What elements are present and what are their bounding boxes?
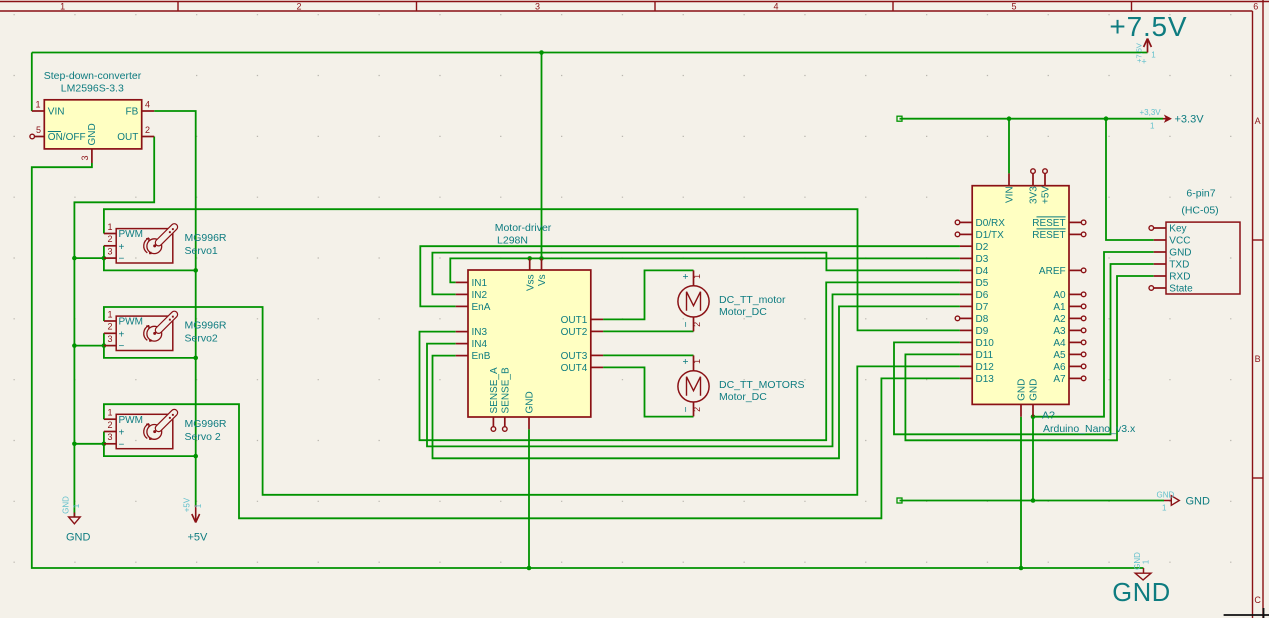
svg-text:1: 1: [692, 359, 702, 364]
U4 pin RXD: [1154, 272, 1191, 283]
svg-text:D5: D5: [976, 278, 989, 289]
svg-text:OUT4: OUT4: [561, 363, 588, 374]
svg-text:1: 1: [35, 100, 40, 110]
svg-text:Motor-driver: Motor-driver: [495, 222, 552, 234]
servo Servo1 MG996R body: [116, 229, 173, 263]
wire FB/+5V net vertical column: [154, 111, 196, 507]
junction Servo2 minus / left column: [72, 343, 77, 348]
wire +7.5V top rail: [32, 53, 1148, 112]
U3 pin D4: [960, 266, 989, 277]
svg-text:5: 5: [1011, 2, 1016, 12]
svg-text:A6: A6: [1053, 362, 1066, 373]
wire OUT net U1 pin2 down left column: [74, 137, 154, 518]
wire OUT4 to motor M2 minus: [603, 367, 693, 416]
svg-text:Step-down-converter: Step-down-converter: [44, 70, 142, 82]
unconnected end square GND wire: [897, 498, 902, 503]
svg-text:L298N: L298N: [497, 234, 528, 246]
U1 pin 1 VIN: [32, 100, 65, 118]
svg-text:A?: A?: [1042, 409, 1055, 421]
junction Vss / D3 line: [527, 256, 532, 261]
servo Servo 2 motor icon: [144, 413, 175, 440]
wire EnA to D2: [420, 246, 960, 306]
svg-text:GND: GND: [87, 123, 98, 145]
svg-text:Key: Key: [1169, 224, 1186, 235]
wire Servo1 PWM to D9: [104, 209, 960, 330]
svg-text:+7.5V: +7.5V: [1109, 11, 1187, 42]
wire Servo1 plus to +5V column: [104, 246, 196, 271]
servo Servo 2 pin 3 -: [104, 432, 125, 450]
U2 pin IN2: [456, 290, 488, 301]
junction Servo3 minus / left column: [72, 442, 77, 447]
svg-text:MG996R: MG996R: [185, 418, 227, 430]
motor driver U2 L298N body: [468, 270, 591, 417]
svg-text:1: 1: [72, 503, 81, 508]
U3 pin +5V: [1041, 169, 1052, 204]
wire Servo3 minus to left column: [74, 443, 104, 445]
U3 pin D11: [960, 350, 994, 361]
svg-text:6: 6: [1253, 2, 1258, 12]
U3 pin D2: [960, 242, 989, 253]
power symbol GND (right arrow): [1157, 490, 1211, 512]
junction Servo1 plus / +5V column: [193, 268, 198, 273]
motor DC_TT_MOTORS body: [678, 371, 709, 402]
wire Servo1 minus to left column: [74, 257, 104, 259]
svg-text:GND: GND: [1017, 379, 1028, 401]
svg-text:2: 2: [107, 420, 112, 430]
svg-text:Vss: Vss: [525, 274, 536, 291]
U3 pin D6: [960, 290, 989, 301]
servo Servo2 pin 2 +: [104, 322, 125, 341]
junction Servo2 minus / plus drop: [102, 343, 107, 348]
svg-text:RXD: RXD: [1169, 272, 1190, 283]
motor DC_TT_motor body: [678, 286, 709, 317]
U3 pin A2: [1053, 314, 1086, 325]
servo Servo 2 MG996R body: [116, 414, 173, 448]
U2 pin OUT4: [561, 363, 603, 374]
step-down converter U1 LM2596S-3.3 body: [44, 100, 141, 149]
svg-text:D10: D10: [976, 338, 995, 349]
power symbol +5V (bottom-left): [183, 497, 209, 543]
svg-text:+3,3V: +3,3V: [1140, 108, 1162, 117]
svg-text:D8: D8: [976, 314, 989, 325]
U3 pin RESET: [1032, 229, 1086, 241]
wire IN3 to D5: [420, 282, 960, 440]
svg-text:GND: GND: [1169, 248, 1191, 259]
svg-text:1: 1: [1142, 559, 1151, 564]
junction L298N GND / bottom rail: [527, 566, 532, 571]
wire Vs vertical from +7.5V rail: [541, 53, 543, 259]
U2 pin IN3: [456, 327, 488, 338]
U1 pin 5 ON/OFF: [30, 125, 86, 143]
U4 pin VCC: [1154, 236, 1191, 247]
svg-text:D2: D2: [976, 242, 989, 253]
U3 pin GND bottom2: [1029, 379, 1040, 417]
svg-text:EnB: EnB: [472, 351, 491, 362]
svg-text:GND: GND: [66, 532, 91, 544]
U2 pin SENSE_B: [500, 367, 511, 431]
motor DC_TT_motor pin 1 +: [681, 270, 702, 285]
svg-text:(HC-05): (HC-05): [1181, 205, 1218, 217]
servo Servo1 pin 3 -: [104, 246, 125, 264]
U2 pin SENSE_A: [489, 367, 500, 431]
svg-text:GND: GND: [1029, 379, 1040, 401]
servo Servo1 pin 1 PWM: [104, 222, 143, 240]
svg-text:TXD: TXD: [1169, 260, 1189, 271]
svg-text:A3: A3: [1053, 326, 1066, 337]
junction Servo2 plus / +5V column: [193, 356, 198, 361]
svg-text:RESET: RESET: [1032, 230, 1065, 241]
wire Arduino VIN to +3.3V rail: [1008, 119, 1010, 174]
wire Servo3 PWM to D13: [104, 378, 960, 518]
wire IN1/Vss/Vs to D3: [450, 258, 960, 282]
wire +3.3V rail: [900, 118, 1164, 120]
U2 pin IN1: [456, 278, 488, 289]
U3 pin D7: [960, 302, 989, 313]
svg-text:D9: D9: [976, 326, 989, 337]
svg-text:DC_TT_MOTORS: DC_TT_MOTORS: [719, 379, 805, 391]
svg-text:RESET: RESET: [1032, 218, 1065, 229]
U3 pin GND bottom1: [1017, 379, 1028, 417]
svg-text:OUT2: OUT2: [561, 327, 588, 338]
svg-text:4: 4: [773, 2, 778, 12]
svg-text:D6: D6: [976, 290, 989, 301]
motor DC_TT_MOTORS pin 1 +: [681, 355, 702, 370]
power symbol GND (bottom, big): [1112, 552, 1170, 607]
servo Servo2 MG996R body: [116, 316, 173, 350]
svg-text:Servo2: Servo2: [185, 333, 218, 345]
U3 pin A1: [1053, 302, 1086, 313]
U4 pin TXD: [1154, 260, 1190, 271]
svg-text:PWM: PWM: [119, 317, 143, 328]
svg-text:3: 3: [107, 246, 112, 256]
svg-text:+: +: [681, 273, 692, 279]
U2 pin EnA: [456, 302, 491, 313]
svg-text:IN1: IN1: [472, 278, 488, 289]
wire Arduino GND1 to bottom rail: [1020, 417, 1022, 568]
svg-text:LM2596S-3.3: LM2596S-3.3: [61, 83, 124, 95]
svg-text:GND: GND: [62, 496, 71, 514]
U3 pin A0: [1053, 290, 1086, 301]
svg-text:OUT: OUT: [117, 132, 138, 143]
svg-text:A2: A2: [1053, 314, 1066, 325]
svg-text:+: +: [119, 428, 125, 439]
U1 pin 3 GND: [80, 123, 98, 163]
U3 pin RESET: [1032, 217, 1086, 229]
svg-text:D7: D7: [976, 302, 989, 313]
svg-text:3: 3: [80, 155, 90, 160]
U3 pin D3: [960, 254, 989, 265]
svg-text:1: 1: [1162, 504, 1167, 513]
svg-text:+: +: [119, 329, 125, 340]
svg-text:Arduino_Nano_v3.x: Arduino_Nano_v3.x: [1043, 423, 1136, 435]
servo Servo2 pin 1 PWM: [104, 309, 143, 327]
Arduino Nano U3 body: [972, 186, 1069, 405]
svg-text:3V3: 3V3: [1029, 186, 1040, 204]
wire L298N GND to bottom rail: [528, 429, 530, 568]
U1 pin 4 FB: [126, 100, 155, 118]
svg-text:−: −: [681, 406, 692, 412]
servo Servo1 motor icon: [144, 227, 175, 254]
svg-text:PWM: PWM: [119, 229, 143, 240]
U3 pin VIN: [1005, 173, 1016, 203]
svg-text:GND: GND: [1157, 490, 1175, 499]
unconnected end square +3.3V rail: [897, 116, 902, 121]
wire D10 to HC-05 TXD: [894, 264, 1154, 434]
junction Servo3 minus / plus drop: [102, 442, 107, 447]
wire Servo2 minus to left column: [74, 345, 104, 347]
svg-text:D11: D11: [976, 350, 994, 361]
svg-text:OUT1: OUT1: [561, 315, 588, 326]
wire GND net from U1 pin3 to bottom rail: [32, 163, 1144, 568]
svg-text:SENSE_B: SENSE_B: [500, 367, 511, 413]
svg-text:5: 5: [36, 125, 41, 135]
power symbol GND (bottom-left): [62, 496, 91, 544]
svg-text:Vs: Vs: [537, 274, 548, 286]
svg-text:D12: D12: [976, 362, 995, 373]
servo Servo2 motor icon: [144, 315, 175, 342]
U2 pin IN4: [456, 339, 488, 350]
svg-text:1: 1: [107, 222, 112, 232]
U2 pin OUT3: [561, 351, 603, 362]
U3 pin A3: [1053, 326, 1086, 337]
svg-text:ON/OFF: ON/OFF: [48, 132, 86, 143]
svg-text:2: 2: [692, 322, 702, 327]
U3 pin 3V3: [1029, 169, 1040, 204]
servo Servo1 pin 2 +: [104, 234, 125, 253]
svg-text:OUT3: OUT3: [561, 351, 588, 362]
wire HC-05 GND to Arduino GND: [1033, 252, 1154, 417]
wire D11 to HC-05 RXD: [905, 276, 1153, 440]
svg-text:Servo 2: Servo 2: [185, 431, 221, 443]
power symbol +3.3V: [1140, 108, 1205, 131]
junction Servo1 minus / left column: [72, 256, 77, 261]
wire HC-05 VCC to +3.3V rail: [1106, 119, 1154, 240]
U2 pin Vs: [537, 258, 548, 286]
U2 pin OUT1: [561, 315, 603, 326]
title block corner (black): [1224, 608, 1269, 618]
wire Servo2 PWM to D12: [104, 307, 960, 495]
U4 pin Key: [1149, 224, 1187, 235]
wire Servo3 plus to +5V column: [104, 432, 196, 457]
svg-text:D4: D4: [976, 266, 989, 277]
power symbol +7.5V (PWR01): [1109, 11, 1187, 66]
svg-text:6-pin7: 6-pin7: [1186, 188, 1215, 200]
U3 pin A4: [1053, 338, 1086, 349]
U3 pin D9: [960, 326, 989, 337]
svg-text:3: 3: [535, 2, 540, 12]
svg-text:A7: A7: [1053, 374, 1066, 385]
svg-text:SENSE_A: SENSE_A: [489, 367, 500, 413]
wire OUT2 to motor M1 minus: [603, 330, 693, 332]
servo Servo2 pin 3 -: [104, 334, 125, 352]
U3 pin D8: [955, 314, 989, 325]
svg-text:GND: GND: [1112, 579, 1170, 607]
junction Servo1 minus / plus drop: [102, 256, 107, 261]
svg-text:A1: A1: [1053, 302, 1066, 313]
svg-text:3: 3: [107, 334, 112, 344]
U2 pin EnB: [456, 351, 491, 362]
HC-05 module U4 body: [1166, 222, 1240, 294]
svg-text:+5V: +5V: [1041, 186, 1052, 204]
svg-text:−: −: [119, 254, 125, 265]
svg-text:C: C: [1254, 595, 1261, 605]
U4 pin State: [1149, 284, 1193, 295]
wire IN2 to D4: [432, 253, 960, 295]
wire IN4 to D6: [427, 294, 960, 446]
svg-text:VIN: VIN: [48, 107, 65, 118]
svg-text:1: 1: [60, 2, 65, 12]
junction +3.3V rail / VIN drop: [1007, 116, 1012, 121]
svg-text:1: 1: [1151, 51, 1156, 60]
svg-text:State: State: [1169, 284, 1193, 295]
junction +7.5V rail / Vs: [539, 50, 544, 55]
junction +3.3V rail / VCC drop: [1104, 116, 1109, 121]
svg-text:1: 1: [194, 503, 203, 508]
svg-text:A: A: [1255, 116, 1261, 126]
svg-text:1: 1: [692, 274, 702, 279]
svg-text:IN2: IN2: [472, 290, 488, 301]
svg-text:D13: D13: [976, 374, 995, 385]
wire Arduino GND2 to GND symbol wire: [1032, 417, 1034, 501]
U3 pin D0/RX: [955, 218, 1005, 229]
svg-text:+: +: [681, 358, 692, 364]
svg-text:4: 4: [145, 100, 150, 110]
U3 pin A6: [1053, 362, 1086, 373]
svg-text:+5V: +5V: [188, 532, 209, 544]
svg-text:B: B: [1255, 354, 1261, 364]
U3 pin D12: [960, 362, 994, 373]
svg-text:FB: FB: [126, 107, 139, 118]
svg-text:VCC: VCC: [1169, 236, 1190, 247]
svg-text:+: +: [119, 242, 125, 253]
junction Servo3 plus / +5V column: [193, 454, 198, 459]
svg-text:−: −: [119, 439, 125, 450]
svg-text:Motor_DC: Motor_DC: [719, 306, 767, 318]
svg-text:MG996R: MG996R: [185, 320, 227, 332]
svg-text:2: 2: [145, 125, 150, 135]
wire OUT3 to motor M2 plus: [603, 354, 693, 356]
svg-text:D0/RX: D0/RX: [976, 218, 1006, 229]
junction Vs / D3 line: [539, 256, 544, 261]
svg-text:GND: GND: [1186, 495, 1211, 507]
motor DC_TT_MOTORS pin 2 -: [681, 402, 702, 416]
svg-text:A0: A0: [1053, 290, 1066, 301]
wire EnB to D7: [433, 306, 960, 458]
junction Arduino GND pin / HC-05 GND wire: [1031, 414, 1036, 419]
U4 pin GND: [1154, 248, 1192, 259]
servo Servo 2 pin 2 +: [104, 420, 125, 439]
svg-text:D3: D3: [976, 254, 989, 265]
U3 pin D1/TX: [955, 230, 1004, 241]
U1 pin 2 OUT: [117, 125, 154, 143]
U3 pin D10: [960, 338, 994, 349]
svg-text:DC_TT_motor: DC_TT_motor: [719, 294, 786, 306]
svg-text:1: 1: [107, 309, 112, 319]
svg-text:+: +: [1141, 57, 1146, 67]
U3 pin D13: [960, 374, 994, 385]
svg-text:VIN: VIN: [1005, 186, 1016, 203]
svg-text:IN4: IN4: [472, 339, 488, 350]
svg-text:−: −: [119, 341, 125, 352]
junction GND wire / Arduino GND2 drop: [1031, 498, 1036, 503]
svg-text:+3.3V: +3.3V: [1175, 114, 1205, 126]
svg-text:2: 2: [692, 407, 702, 412]
U3 pin A7: [1053, 374, 1086, 385]
svg-text:PWM: PWM: [119, 415, 143, 426]
svg-text:Servo1: Servo1: [185, 245, 218, 257]
wire GND horizontal to GND arrow symbol: [900, 500, 1165, 502]
wire Servo2 plus to +5V column: [104, 333, 196, 358]
servo Servo 2 pin 1 PWM: [104, 408, 143, 426]
U2 pin Vss: [525, 258, 536, 291]
svg-text:2: 2: [107, 322, 112, 332]
svg-text:+5V: +5V: [183, 497, 192, 512]
svg-text:D1/TX: D1/TX: [976, 230, 1005, 241]
svg-text:A5: A5: [1053, 350, 1066, 361]
wire OUT1 to motor M1 plus: [603, 270, 693, 319]
junction Arduino GND1 / bottom rail: [1019, 566, 1024, 571]
svg-text:2: 2: [107, 234, 112, 244]
U2 pin GND: [525, 391, 536, 429]
svg-text:AREF: AREF: [1039, 266, 1066, 277]
svg-text:1: 1: [107, 408, 112, 418]
U2 pin OUT2: [561, 327, 603, 338]
svg-text:GND: GND: [525, 391, 536, 413]
motor DC_TT_motor pin 2 -: [681, 317, 702, 331]
U3 pin A5: [1053, 350, 1086, 361]
U3 pin AREF: [1039, 266, 1086, 277]
U3 pin D5: [960, 278, 989, 289]
svg-text:MG996R: MG996R: [185, 232, 227, 244]
svg-text:−: −: [681, 321, 692, 327]
svg-text:1: 1: [1150, 122, 1155, 131]
svg-text:3: 3: [107, 432, 112, 442]
svg-text:A4: A4: [1053, 338, 1066, 349]
svg-text:IN3: IN3: [472, 327, 488, 338]
svg-text:EnA: EnA: [472, 302, 491, 313]
svg-text:2: 2: [296, 2, 301, 12]
svg-text:Motor_DC: Motor_DC: [719, 391, 767, 403]
